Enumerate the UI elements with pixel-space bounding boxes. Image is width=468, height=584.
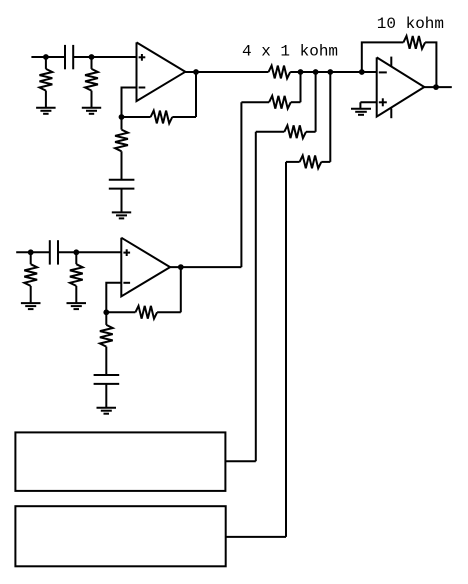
op-amp U3 <box>377 57 425 116</box>
op-amp U2 plus input symbol <box>123 252 130 254</box>
op-amp U3 plus input symbol <box>379 101 387 103</box>
node U1 output <box>193 69 199 75</box>
capacitor C2 coupling <box>49 240 51 264</box>
ground below C1g <box>112 211 131 213</box>
resistor R2a input bias <box>30 252 32 264</box>
op-amp U1 minus input symbol <box>139 87 146 89</box>
wire U2 output to summing resistor <box>170 266 241 268</box>
svg-text:10 kohm: 10 kohm <box>377 15 444 33</box>
ground below C2g <box>97 407 117 409</box>
resistor R1g to ground leg <box>121 117 123 130</box>
op-amp U2 <box>121 238 170 297</box>
node U3 minus input <box>359 69 365 75</box>
resistor R1f feedback U1 <box>122 116 151 118</box>
node input 2 B <box>73 249 79 255</box>
resistor R1a input bias <box>45 57 47 69</box>
capacitor C2g in ground leg <box>94 374 120 376</box>
op-amp U3 positive power pin <box>390 57 392 67</box>
resistor Rs2 1 kohm <box>241 101 269 103</box>
resistor Rs3 1 kohm <box>256 131 284 133</box>
op-amp U1 <box>137 42 186 101</box>
wire C1g to ground <box>121 189 123 213</box>
op-amp U3 minus input symbol <box>379 71 387 73</box>
wire Rs4 dropper to box 2 <box>285 162 287 537</box>
ground below R1a <box>36 107 56 109</box>
op-amp U3 negative power pin <box>390 109 392 119</box>
wire feedback up to U2 output <box>180 267 182 312</box>
wire C2g to ground <box>105 384 107 408</box>
resistor R1b input bias <box>91 57 93 69</box>
wire C1 to op-amp U1 + input <box>73 56 136 58</box>
wire Rs4 riser <box>329 72 331 162</box>
wire Rs3 riser <box>315 72 317 132</box>
wire input 1 left segment <box>31 56 65 58</box>
ground below R2a <box>21 302 41 304</box>
wire C2 to op-amp U2 + input <box>58 251 121 253</box>
wire Rs2 riser <box>300 72 302 102</box>
wire box 2 to Rs4 <box>226 536 286 538</box>
wire box 1 to Rs3 <box>225 460 255 462</box>
node input 1 B <box>89 54 95 60</box>
box source 1 <box>15 432 225 491</box>
resistor R2f feedback U2 <box>106 311 135 313</box>
resistor R2b input bias <box>75 252 77 264</box>
node U2 feedback junction <box>103 309 109 315</box>
node U1 feedback junction <box>119 114 125 120</box>
node input 1 A <box>43 54 49 60</box>
op-amp U1 plus input symbol <box>139 56 146 58</box>
wire Rs3 dropper to box 1 <box>255 132 257 462</box>
wire U1 minus input <box>122 88 137 118</box>
ground below R1b <box>82 107 101 109</box>
node U3 output <box>433 84 439 90</box>
resistor R2g to ground leg <box>105 312 107 325</box>
wire U1 output to summing node <box>185 71 268 73</box>
wire feedback up to U1 output <box>195 72 197 117</box>
capacitor C1g in ground leg <box>109 179 135 181</box>
resistor R3f feedback 10 kohm <box>362 42 404 72</box>
wire summing line <box>290 71 377 73</box>
node summing B <box>313 69 319 75</box>
op-amp U2 minus input symbol <box>123 282 130 284</box>
svg-text:4 x 1 kohm: 4 x 1 kohm <box>242 43 338 61</box>
box source 2 <box>15 506 225 566</box>
node U2 output <box>178 264 184 270</box>
wire U2 minus input <box>106 283 121 313</box>
wire U3 plus input to ground <box>360 101 376 103</box>
wire input 2 left segment <box>16 251 50 253</box>
node summing C <box>327 69 333 75</box>
node input 2 A <box>28 249 34 255</box>
ground at U3 plus input <box>351 108 371 110</box>
node summing A <box>298 69 304 75</box>
resistor Rs4 1 kohm <box>286 161 300 163</box>
ground below R2b <box>67 302 87 304</box>
capacitor C1 coupling <box>64 45 66 69</box>
resistor Rs1 1 kohm <box>269 66 291 79</box>
wire U3 output <box>424 86 452 88</box>
